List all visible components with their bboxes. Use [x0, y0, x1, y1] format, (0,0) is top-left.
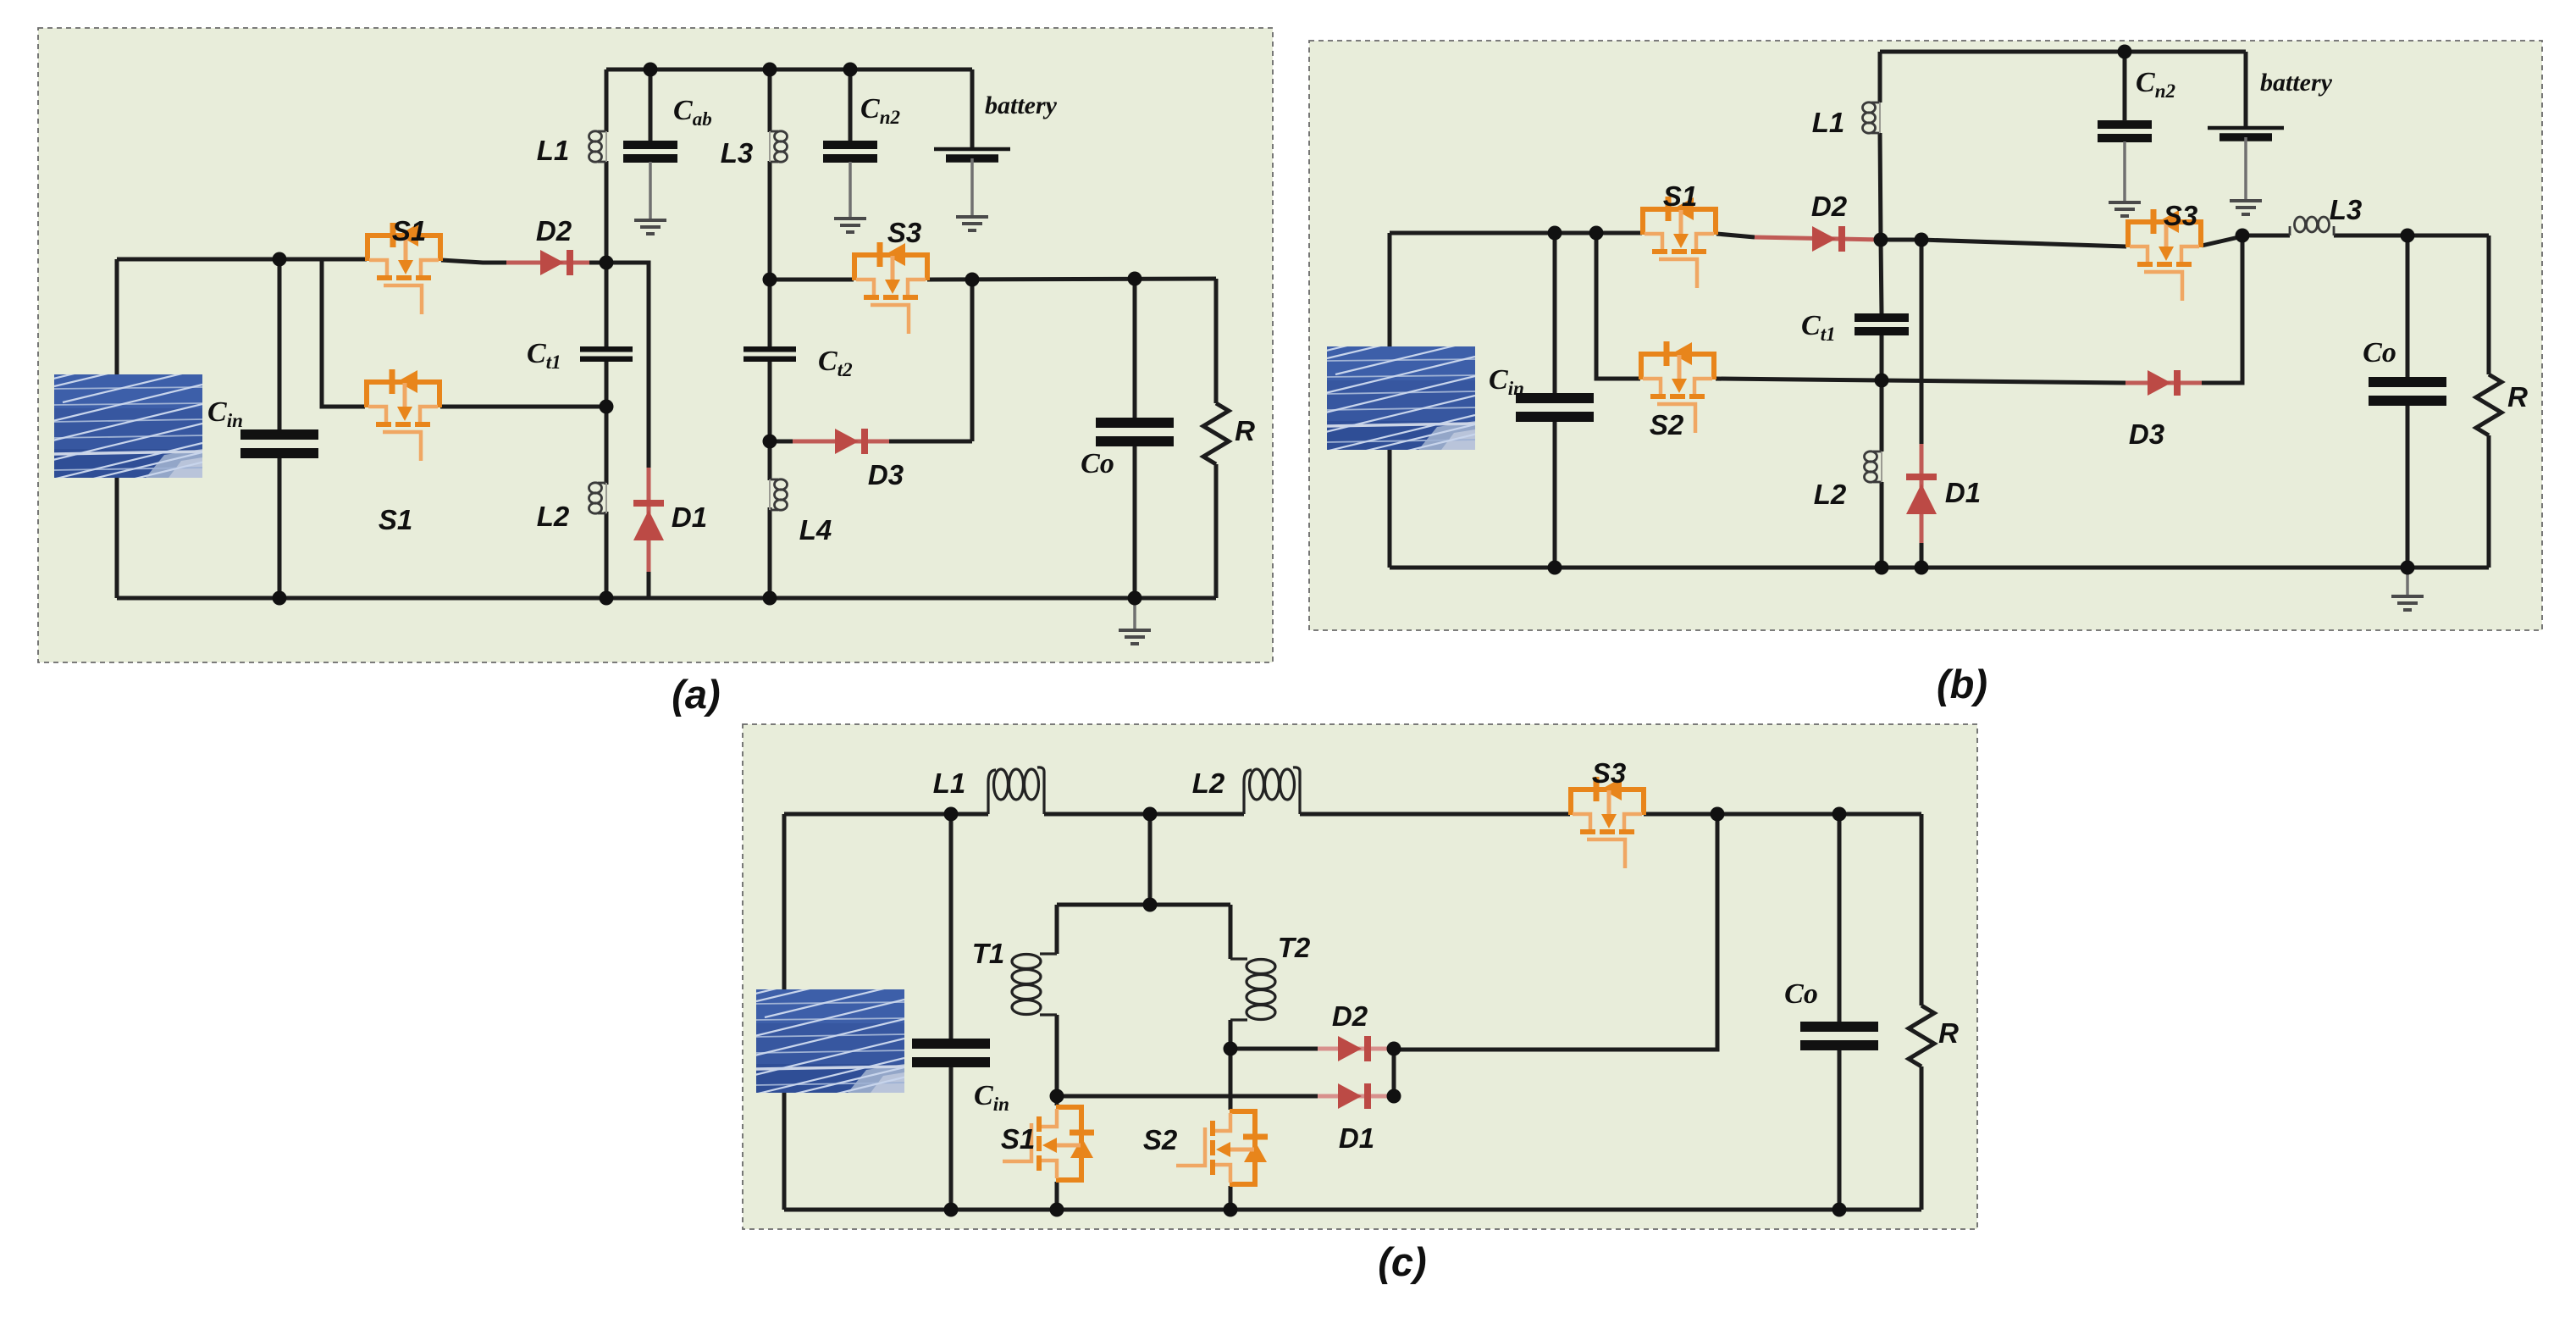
- wire: top rail (c): [784, 812, 1570, 817]
- transistor S3 (b): [2128, 209, 2201, 301]
- wire: S2 column (c): [1229, 1049, 1233, 1210]
- wire: D1 branch stub (a): [606, 263, 649, 598]
- wire: S2 output row to D3 (b): [1716, 379, 2125, 383]
- junction node D2 output (b): [1874, 233, 1888, 247]
- svg-text:L1: L1: [537, 135, 570, 166]
- junction node S3 output (a): [965, 273, 980, 287]
- capacitor Cin (a): [240, 429, 318, 458]
- wire: S3 output row (a): [927, 279, 1216, 280]
- inductor L2 (b): [1865, 451, 1882, 482]
- ground at Cn2 (a): [834, 219, 866, 232]
- junction node Co top (c): [1832, 807, 1847, 822]
- junction node D1 bottom (b): [1915, 561, 1929, 575]
- svg-text:Co: Co: [2363, 337, 2396, 368]
- wire: L1/Ct1/L2 column (a): [605, 69, 609, 598]
- junction node Cin bottom (c): [944, 1203, 959, 1217]
- wire: Cab branch (a): [649, 69, 653, 141]
- svg-text:D2: D2: [536, 215, 572, 247]
- wire: S1 to D2 node (a): [441, 260, 606, 263]
- junction node S2 branch (b): [1589, 226, 1604, 241]
- wire: bottom rail (c): [784, 1208, 1921, 1212]
- ground at battery (a): [956, 217, 988, 230]
- wire: Cn2 branch (b): [2123, 52, 2127, 121]
- transistor S1 (c): [1003, 1107, 1094, 1180]
- wire: D2 node to S3 (b): [1921, 240, 2126, 247]
- svg-text:(b): (b): [1937, 662, 1987, 706]
- wire: top-left rail to S1 (b): [1390, 231, 1642, 235]
- svg-text:L3: L3: [2330, 194, 2363, 225]
- solar panel PV module (b): [1302, 342, 1488, 455]
- wire: Ct2 node to S3 lead (a): [770, 278, 854, 282]
- junction node S1 source (c): [1050, 1203, 1064, 1217]
- capacitor Cin (b): [1516, 393, 1594, 422]
- wire: top rail (b): [1880, 50, 2246, 54]
- diode D1 (b): [1906, 474, 1937, 514]
- svg-text:L2: L2: [537, 501, 570, 532]
- wire: R column (a): [1214, 279, 1219, 598]
- resistor R (c): [1909, 1005, 1934, 1066]
- junction node L2 bottom (b): [1875, 561, 1889, 575]
- svg-text:T1: T1: [972, 938, 1005, 969]
- transistor S1 lower (a): [367, 369, 439, 461]
- transistor S3 (a): [854, 242, 927, 334]
- svg-text:S3: S3: [887, 217, 921, 248]
- capacitor Cab (a): [623, 141, 677, 163]
- transistor S2 (b): [1641, 341, 1714, 433]
- junction node D1 top (b): [1915, 233, 1929, 247]
- junction node Cin top (a): [273, 252, 287, 267]
- wire: Cn2 to ground stub (b): [2123, 141, 2126, 201]
- junction node Co bottom (c): [1832, 1203, 1847, 1217]
- wire: lower S1 to Ct1 node (a): [440, 405, 606, 409]
- junction node S2 source (c): [1224, 1203, 1238, 1217]
- diode D2 (c): [1338, 1036, 1371, 1061]
- junction node Cin bottom (b): [1548, 561, 1562, 575]
- wire: L1 column (b): [1880, 52, 1881, 240]
- svg-text:battery: battery: [985, 91, 1058, 119]
- junction node Co bottom (a): [1128, 591, 1142, 606]
- svg-text:L4: L4: [799, 514, 832, 546]
- junction node D2 output (c): [1387, 1042, 1401, 1056]
- junction node D1 output (c): [1387, 1089, 1401, 1104]
- wire: red segment at D2 (a): [506, 261, 589, 265]
- diode D3 (b): [2148, 370, 2181, 396]
- wire: red segment at D3 (b): [2125, 381, 2202, 385]
- svg-text:L3: L3: [721, 137, 754, 169]
- wire: red segment at D2 (c): [1318, 1047, 1394, 1051]
- wire: S3 output to L3 (b): [2202, 236, 2242, 246]
- wire: D3 row black part (a): [770, 440, 972, 444]
- junction node L2 bottom (a): [600, 591, 614, 606]
- wire: Cin branch (a): [278, 259, 282, 598]
- inductor L2 (c): [1244, 767, 1300, 814]
- resistor R (a): [1203, 403, 1229, 464]
- wire: Co to ground stub (b): [2406, 568, 2409, 595]
- wire: middle branch down (c): [1148, 814, 1153, 905]
- junction node L4 bottom (a): [763, 591, 777, 606]
- wire: R column (b): [2487, 235, 2491, 568]
- svg-text:L1: L1: [1812, 107, 1845, 138]
- capacitor Co (c): [1800, 1022, 1878, 1050]
- wire: S1 column (c): [1055, 1096, 1059, 1210]
- inductor L2 (a): [589, 483, 607, 513]
- junction node S2 drain (c): [1224, 1042, 1238, 1056]
- svg-text:T2: T2: [1278, 932, 1311, 963]
- wire: Cin column (b): [1553, 233, 1557, 568]
- inductor L1 (b): [1863, 102, 1881, 133]
- junction node Cn2 top (a): [843, 63, 858, 77]
- junction node Cab top (a): [644, 63, 658, 77]
- panel (c) background: [743, 724, 1977, 1229]
- svg-text:S1: S1: [1663, 180, 1697, 212]
- solar panel PV module (c): [731, 985, 917, 1098]
- panel (b) background: [1309, 41, 2542, 630]
- wire: D3 to L3 riser (b): [2202, 235, 2242, 383]
- svg-text:D1: D1: [1945, 477, 1981, 508]
- wire: Cin column (c): [949, 814, 954, 1210]
- transistor S2 (c): [1176, 1111, 1268, 1184]
- inductor L1 (a): [589, 131, 607, 162]
- svg-text:D3: D3: [868, 459, 904, 490]
- transistor S1 upper (a): [368, 223, 440, 314]
- wire: red segment at D3 (a): [793, 440, 889, 444]
- solar panel PV module (a): [29, 370, 215, 483]
- wire: red segment at D1 (a): [647, 468, 651, 572]
- transistor S3 (c): [1571, 777, 1644, 868]
- junction node S3 input (a): [763, 273, 777, 287]
- junction node Ct1 bottom (b): [1875, 374, 1889, 388]
- wire: L3 row (b): [2242, 234, 2489, 238]
- wire: top-left rail to S1 (a): [117, 258, 367, 262]
- transformer winding T1 (c): [1012, 954, 1057, 1015]
- wire: battery branch (a): [970, 69, 975, 147]
- wire: red segment at D1 (c): [1318, 1094, 1394, 1099]
- wire: top rail (a): [606, 68, 972, 72]
- panel (a) background: [38, 28, 1273, 662]
- wire: D1-D2 connector (c): [1392, 1049, 1396, 1096]
- junction node Cin top (c): [944, 807, 959, 822]
- junction node Co bottom (b): [2401, 561, 2415, 575]
- svg-text:S1: S1: [379, 504, 412, 535]
- svg-text:S1: S1: [392, 215, 426, 247]
- svg-text:R: R: [2507, 381, 2528, 413]
- resistor R (b): [2476, 374, 2501, 435]
- junction node L1-L2 (c): [1143, 807, 1158, 822]
- svg-text:(a): (a): [672, 672, 720, 717]
- wire: S3 feedback loop (c): [1394, 814, 1717, 1050]
- svg-text:S3: S3: [1592, 757, 1626, 789]
- wire: Cn2 branch (a): [849, 69, 853, 141]
- ground at Cn2 (b): [2109, 202, 2141, 216]
- wire: D2 row black part (c): [1230, 1047, 1318, 1051]
- diode D2 (b): [1812, 226, 1845, 252]
- junction node L3 top (a): [763, 63, 777, 77]
- capacitor Co (b): [2369, 377, 2446, 406]
- diode D1 (c): [1338, 1083, 1371, 1109]
- wire: red segment at D1 (b): [1920, 444, 1924, 543]
- junction node S1 drain (c): [1050, 1089, 1064, 1104]
- svg-text:S3: S3: [2164, 200, 2197, 231]
- junction node S3 output (c): [1711, 807, 1725, 822]
- capacitor Ct1 (a): [580, 346, 633, 362]
- wire: left input loop (a): [115, 259, 119, 598]
- wire: R column (c): [1920, 814, 1924, 1210]
- wire: bottom rail (a): [117, 596, 1216, 601]
- capacitor Ct2 (a): [744, 346, 796, 362]
- wire: battery branch (b): [2244, 52, 2248, 126]
- wire: L3/Ct2/L4 column (a): [768, 69, 772, 598]
- junction node D3 input (a): [763, 435, 777, 449]
- wire: transformer bridge (c): [1057, 903, 1230, 907]
- transistor S1 (b): [1643, 197, 1716, 288]
- wire: S3-D3 vertical link (a): [970, 280, 975, 441]
- diode D2 (a): [540, 250, 573, 275]
- wire: Co column (a): [1133, 279, 1137, 598]
- wire: Co column (b): [2406, 235, 2410, 568]
- diode D1 (a): [633, 500, 664, 540]
- svg-text:R: R: [1235, 415, 1255, 446]
- junction node Cin bottom (a): [273, 591, 287, 606]
- wire: branch to lower S1 (a): [322, 259, 365, 407]
- wire: D2 node to D1 branch (b): [1881, 238, 1921, 242]
- junction node Co top (b): [2401, 229, 2415, 243]
- svg-text:S2: S2: [1650, 409, 1684, 440]
- diode D3 (a): [835, 429, 868, 454]
- junction node Cn2 top (b): [2118, 45, 2132, 59]
- svg-text:L2: L2: [1192, 767, 1225, 799]
- svg-text:D3: D3: [2129, 418, 2164, 450]
- svg-text:(c): (c): [1378, 1239, 1426, 1284]
- junction node Co top (a): [1128, 272, 1142, 286]
- junction node Cin top (b): [1548, 226, 1562, 241]
- svg-text:D2: D2: [1332, 1000, 1368, 1032]
- capacitor Ct1 (b): [1855, 313, 1909, 335]
- wire: battery to ground stub (a): [970, 158, 974, 215]
- inductor L1 (c): [988, 767, 1044, 814]
- svg-text:Co: Co: [1784, 978, 1818, 1010]
- wire: T1 column (c): [1055, 905, 1059, 1096]
- inductor L3 (a): [770, 131, 788, 162]
- capacitor Cn2 (b): [2098, 120, 2152, 142]
- wire: S3 output row (c): [1644, 812, 1921, 817]
- wire: battery to ground stub (b): [2244, 137, 2247, 199]
- wire: left input loop (c): [782, 814, 787, 1210]
- wire: D1 column black (b): [1920, 240, 1924, 568]
- battery symbol (a): [934, 149, 1010, 158]
- capacitor Co (a): [1096, 418, 1174, 446]
- wire: S1 to D2 black stub (b): [1716, 234, 1755, 237]
- svg-text:R: R: [1938, 1017, 1959, 1049]
- junction node Ct1 bottom (a): [600, 400, 614, 414]
- ground at battery (b): [2230, 201, 2262, 214]
- wire: T2 column (c): [1229, 905, 1233, 1049]
- wire: Co column (c): [1838, 814, 1842, 1210]
- capacitor Cin (c): [912, 1039, 990, 1067]
- transformer winding T2 (c): [1230, 959, 1275, 1020]
- svg-text:L2: L2: [1814, 479, 1847, 510]
- svg-text:D2: D2: [1811, 191, 1848, 222]
- ground at Cab (a): [634, 220, 666, 234]
- svg-text:battery: battery: [2260, 69, 2333, 97]
- ground at output (b): [2391, 596, 2424, 610]
- svg-text:S1: S1: [1001, 1123, 1035, 1155]
- wire: red segment at D2 (b): [1755, 237, 1881, 240]
- svg-text:D1: D1: [1339, 1122, 1374, 1154]
- svg-text:L1: L1: [933, 767, 966, 799]
- wire: branch to S2 (b): [1596, 233, 1640, 379]
- capacitor Cn2 (a): [823, 141, 877, 163]
- wire: bottom rail (b): [1390, 566, 2489, 570]
- junction node transformer center (c): [1143, 898, 1158, 912]
- junction node D2/L1 (a): [600, 256, 614, 270]
- wire: Cn2 to ground stub (a): [849, 162, 852, 217]
- battery symbol (b): [2208, 128, 2284, 137]
- wire: left input loop (b): [1388, 233, 1392, 568]
- wire: D1 row black part (c): [1057, 1094, 1318, 1099]
- svg-text:S2: S2: [1143, 1124, 1178, 1155]
- wire: Co to ground stub (a): [1133, 598, 1136, 629]
- wire: Cab to ground stub (a): [649, 162, 652, 219]
- inductor L3 (b): [2290, 217, 2334, 235]
- svg-text:Co: Co: [1081, 448, 1114, 479]
- ground at output (a): [1119, 630, 1151, 644]
- svg-text:D1: D1: [672, 501, 707, 533]
- wire: Ct1 column (b): [1881, 240, 1882, 568]
- inductor L4 (a): [770, 479, 788, 510]
- junction node L3 left (b): [2236, 229, 2250, 243]
